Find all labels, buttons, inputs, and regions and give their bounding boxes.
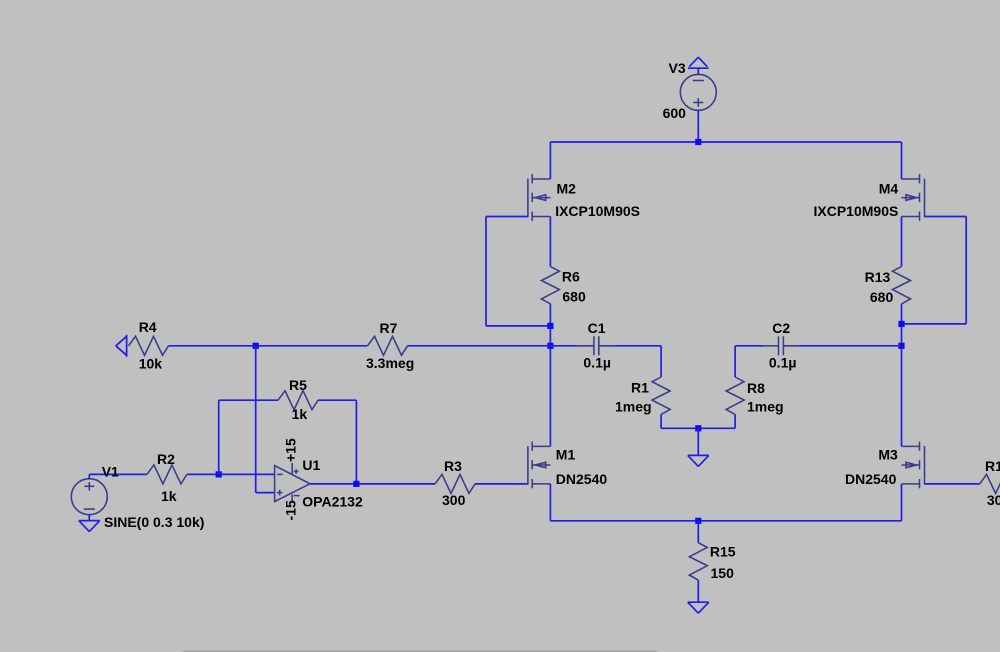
resistor R8 xyxy=(726,377,744,414)
wire R4 junction to opamp noninverting input xyxy=(256,346,275,493)
wire C1 to R1 xyxy=(615,346,661,377)
svg-text:M4: M4 xyxy=(879,181,899,197)
transistor M3 xyxy=(902,442,925,489)
svg-text:V1: V1 xyxy=(102,464,119,480)
wire R2 to opamp junction xyxy=(187,473,219,475)
voltage source V3 xyxy=(680,74,716,110)
svg-text:R2: R2 xyxy=(157,451,175,467)
svg-text:R1: R1 xyxy=(631,380,649,396)
capacitor C2 xyxy=(763,336,800,355)
node R4-R7 junction xyxy=(253,343,259,349)
svg-text:R13: R13 xyxy=(865,269,891,285)
svg-text:-15: -15 xyxy=(283,500,299,520)
wire source bottom rail xyxy=(550,484,901,521)
svg-text:IXCP10M90S: IXCP10M90S xyxy=(814,203,899,219)
wire M3 gate to R14 xyxy=(925,483,980,485)
wire opamp output xyxy=(310,483,435,485)
svg-text:300: 300 xyxy=(987,492,1000,508)
wire R1 bottom to center node xyxy=(661,414,735,428)
svg-text:1meg: 1meg xyxy=(747,399,784,415)
node M4 gate loop junction xyxy=(898,321,904,327)
svg-text:U1: U1 xyxy=(302,457,320,473)
svg-text:R3: R3 xyxy=(444,458,462,474)
input flag left of R4 xyxy=(116,335,127,357)
svg-text:M2: M2 xyxy=(557,181,577,197)
svg-text:M1: M1 xyxy=(556,447,576,463)
resistor R15 xyxy=(689,543,707,580)
transistor M2 xyxy=(528,174,551,221)
wire center node to ground xyxy=(697,428,699,455)
resistor R7 xyxy=(368,336,408,355)
svg-text:OPA2132: OPA2132 xyxy=(302,494,363,510)
wire M2 gate loop xyxy=(486,217,550,326)
svg-text:3.3meg: 3.3meg xyxy=(366,355,414,371)
ground center xyxy=(688,455,709,466)
power flag above V3 xyxy=(688,57,709,68)
svg-text:R4: R4 xyxy=(139,319,157,335)
node R2-R5 junction xyxy=(216,471,222,477)
wire M4 drain xyxy=(901,142,903,179)
svg-text:SINE(0 0.3 10k): SINE(0 0.3 10k) xyxy=(104,514,204,530)
node bottom rail R15 junction xyxy=(695,518,701,524)
voltage source V1 xyxy=(71,479,107,515)
svg-text:R7: R7 xyxy=(380,320,398,336)
svg-text:C1: C1 xyxy=(588,320,606,336)
resistor R6 xyxy=(541,267,559,304)
svg-text:680: 680 xyxy=(870,289,894,305)
wire V3 top stub xyxy=(697,68,699,74)
svg-text:1meg: 1meg xyxy=(615,399,652,415)
wire C2 to right column xyxy=(799,345,901,347)
wire R15 bottom xyxy=(697,580,699,602)
op-amp U1 xyxy=(275,463,310,503)
wire M4 source to R13 xyxy=(901,217,903,267)
wire junction to opamp inverting input xyxy=(219,473,275,475)
svg-text:1k: 1k xyxy=(292,406,308,422)
svg-text:V3: V3 xyxy=(669,60,686,76)
wire R13 bottom to M3 drain xyxy=(901,304,903,447)
svg-text:R8: R8 xyxy=(747,380,765,396)
wire R15 top xyxy=(697,521,699,543)
resistor R3 xyxy=(435,474,475,493)
resistor R4 xyxy=(129,336,169,355)
node R1-R8 center junction xyxy=(695,425,701,431)
svg-text:DN2540: DN2540 xyxy=(556,471,608,487)
svg-text:DN2540: DN2540 xyxy=(845,471,897,487)
ground R15 xyxy=(688,602,709,613)
svg-text:600: 600 xyxy=(663,105,687,121)
svg-text:R5: R5 xyxy=(289,377,307,393)
wire V3 to rail xyxy=(697,110,699,142)
resistor R1 xyxy=(652,377,670,414)
ground V1 xyxy=(79,521,100,532)
node M2 gate loop junction xyxy=(547,323,553,329)
node V3-rail junction xyxy=(695,139,701,145)
wire top rail xyxy=(550,141,901,143)
node C1 row left junction xyxy=(547,343,553,349)
wire M4 gate loop xyxy=(902,217,967,324)
svg-text:C2: C2 xyxy=(772,320,790,336)
resistor R5 xyxy=(278,391,318,410)
node C2 row right junction xyxy=(898,343,904,349)
svg-text:150: 150 xyxy=(711,565,735,581)
wire R3 to M1 gate xyxy=(475,483,528,485)
wire V1 top stub xyxy=(89,474,147,479)
wire M2 drain xyxy=(549,142,551,179)
capacitor C1 xyxy=(578,336,615,355)
wire V1 to ground xyxy=(88,514,90,520)
resistor R13 xyxy=(893,267,911,304)
wire R5 left leg xyxy=(219,400,278,474)
wire R7 to C1 xyxy=(408,345,578,347)
svg-text:M3: M3 xyxy=(878,447,898,463)
wire R4 to junction xyxy=(169,345,368,347)
svg-text:1k: 1k xyxy=(161,488,177,504)
wire R8 top to C2 xyxy=(735,346,762,377)
transistor M1 xyxy=(528,442,551,489)
svg-text:10k: 10k xyxy=(139,356,163,372)
svg-text:300: 300 xyxy=(442,492,466,508)
wire R6 bottom to M1 drain xyxy=(549,304,551,447)
wire R5 right leg xyxy=(318,400,356,484)
bottom edge cropped text artifact xyxy=(183,650,657,652)
resistor R14 xyxy=(980,474,1000,493)
svg-text:R6: R6 xyxy=(562,269,580,285)
node opamp output junction xyxy=(353,481,359,487)
transistor M4 xyxy=(902,174,925,221)
resistor R2 xyxy=(147,465,187,484)
svg-text:+15: +15 xyxy=(283,438,299,462)
wire M2 source to R6 xyxy=(549,217,551,267)
svg-text:680: 680 xyxy=(562,289,586,305)
svg-text:IXCP10M90S: IXCP10M90S xyxy=(555,203,640,219)
svg-text:0.1µ: 0.1µ xyxy=(769,355,797,371)
svg-text:R15: R15 xyxy=(710,544,736,560)
svg-text:R14: R14 xyxy=(985,458,1000,474)
svg-text:0.1µ: 0.1µ xyxy=(583,355,611,371)
